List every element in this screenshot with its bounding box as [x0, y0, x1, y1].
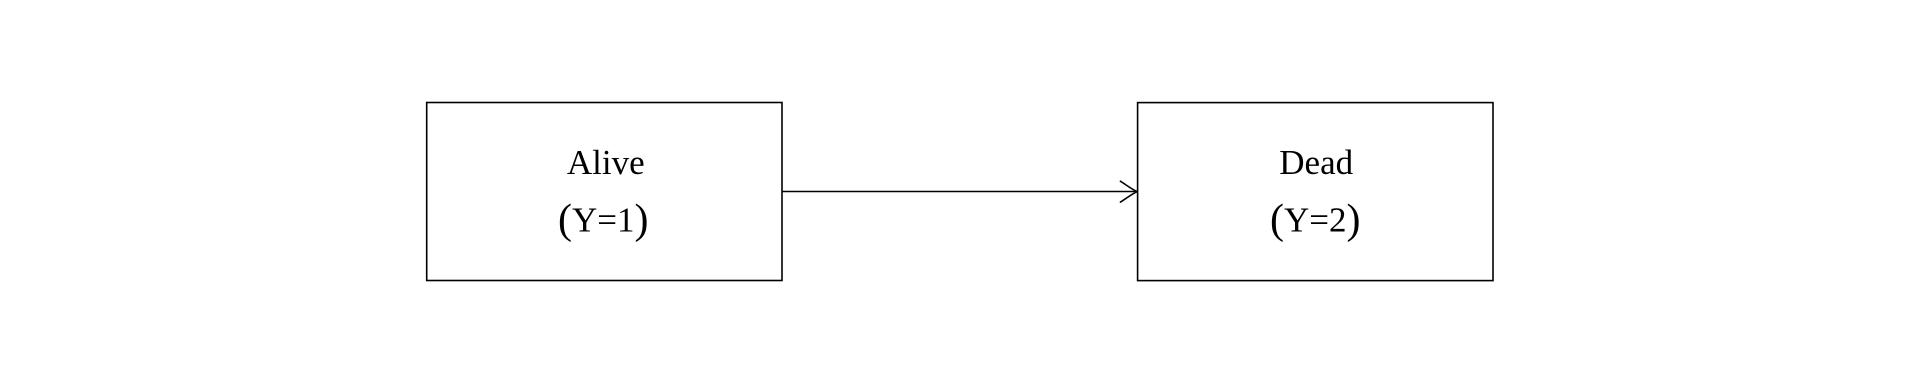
svg-text:(Y=2): (Y=2): [1270, 197, 1361, 243]
svg-text:(Y=1): (Y=1): [558, 197, 649, 243]
svg-text:Dead: Dead: [1279, 143, 1353, 182]
svg-text:Alive: Alive: [567, 143, 645, 182]
